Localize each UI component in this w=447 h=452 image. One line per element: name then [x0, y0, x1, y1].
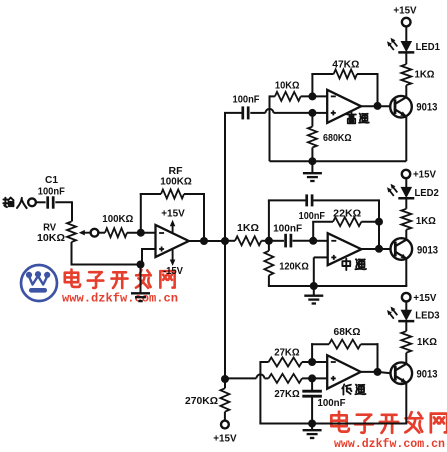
- svg-text:10KΩ: 10KΩ: [275, 81, 300, 92]
- transistor Q1 9013: [390, 96, 437, 118]
- label 高通: [347, 113, 369, 124]
- resistor 1K LED1 label: [415, 69, 435, 81]
- op-amp U1: [156, 225, 189, 257]
- wire collector Q2: [405, 230, 407, 240]
- svg-text:www.dzkfw.com.cn: www.dzkfw.com.cn: [62, 292, 178, 306]
- wire: [127, 232, 156, 234]
- wire LP ground branch: [260, 361, 268, 424]
- wire ground stem U1: [140, 265, 142, 293]
- LED1: [387, 38, 440, 53]
- resistor 120K label: [279, 262, 309, 273]
- wire: [55, 201, 72, 221]
- input terminal: [28, 198, 36, 206]
- svg-text:1KΩ: 1KΩ: [417, 336, 437, 348]
- svg-text:+15V: +15V: [161, 209, 185, 220]
- node 22K output junction: [375, 218, 383, 226]
- wire with hop: [250, 109, 327, 113]
- resistor 47K label: [332, 60, 359, 71]
- label 中通: [342, 259, 366, 270]
- svg-text:9013: 9013: [417, 369, 438, 381]
- node ground LP: [308, 420, 316, 428]
- node RV bottom junction: [137, 261, 145, 269]
- watermark text bottom: [331, 412, 447, 433]
- node A mid: [265, 237, 273, 245]
- wire: [313, 286, 315, 295]
- resistor 1K LED2 label: [416, 215, 436, 227]
- capacitor 100nF series label: [273, 224, 302, 235]
- resistor 100K input label: [102, 214, 133, 225]
- svg-text:C1: C1: [45, 175, 58, 186]
- wire HP 10K ground branch: [270, 95, 275, 161]
- svg-text:9013: 9013: [417, 244, 438, 256]
- resistor 120K: [264, 251, 273, 276]
- node inverting input U1: [137, 229, 145, 237]
- capacitor C1 label: [38, 175, 65, 197]
- wire: [224, 412, 226, 421]
- wire: [405, 301, 407, 310]
- wire: [269, 240, 328, 242]
- resistor 68K label: [334, 327, 361, 338]
- label 低通: [342, 384, 365, 394]
- wire: [311, 378, 313, 390]
- node noninverting U4: [308, 374, 316, 382]
- wiper arrow: [79, 230, 91, 236]
- svg-text:RV: RV: [43, 223, 56, 234]
- capacitor 100nF top: [307, 194, 312, 206]
- svg-text:100nF: 100nF: [273, 224, 302, 235]
- svg-text:1KΩ: 1KΩ: [237, 223, 259, 234]
- capacitor 100nF LP label: [318, 398, 346, 409]
- wire bus: [224, 113, 226, 379]
- wire output U2: [361, 105, 390, 107]
- resistor 47K: [334, 70, 357, 79]
- node bus bottom: [221, 375, 229, 383]
- svg-text:68KΩ: 68KΩ: [334, 327, 361, 338]
- svg-text:10KΩ: 10KΩ: [37, 233, 65, 244]
- wire: [311, 424, 313, 430]
- +15V terminal 270K: [213, 421, 236, 445]
- node noninverting U2: [308, 109, 316, 117]
- wire rail mid: [314, 259, 408, 286]
- +15V terminal LED1: [393, 4, 416, 26]
- svg-text:www.dzkfw.com.cn: www.dzkfw.com.cn: [334, 437, 445, 451]
- resistor 100K input: [105, 228, 127, 237]
- resistor 27K bottom label: [274, 389, 299, 400]
- wire: [405, 26, 407, 42]
- watermark url bottom: [334, 437, 445, 451]
- wire collector Q3: [405, 353, 407, 364]
- node output U2: [374, 102, 382, 110]
- LED3: [387, 307, 440, 322]
- wire: [302, 361, 327, 363]
- op-amp U2: [327, 90, 361, 123]
- ground: [303, 430, 322, 438]
- wire: [311, 113, 313, 127]
- svg-text:LED3: LED3: [415, 310, 439, 322]
- wire: [311, 161, 313, 173]
- wire: [311, 397, 313, 424]
- wire noninverting U3: [314, 257, 328, 286]
- wire: [302, 377, 327, 379]
- capacitor 100nF LP: [302, 391, 322, 396]
- svg-text:27KΩ: 27KΩ: [274, 389, 299, 400]
- resistor 680K: [308, 127, 317, 148]
- wire: [405, 178, 407, 187]
- watermark url left: [62, 292, 178, 306]
- svg-text:LED1: LED1: [416, 41, 440, 53]
- wire: [98, 232, 105, 234]
- resistor 1K mid: [235, 236, 261, 245]
- resistor 27K top label: [274, 347, 299, 358]
- watermark text left: [65, 270, 175, 288]
- potentiometer RV: [67, 222, 76, 243]
- svg-text:1KΩ: 1KΩ: [415, 69, 435, 81]
- svg-text:+15V: +15V: [413, 292, 436, 304]
- wire: [405, 52, 407, 64]
- wire output U4: [361, 372, 391, 373]
- node inverting U4: [308, 358, 316, 366]
- transistor Q3 9013: [391, 362, 438, 384]
- resistor 10K: [275, 92, 301, 101]
- resistor 27K top: [269, 358, 303, 367]
- wire: [405, 320, 407, 331]
- -15V arrow U1: [163, 248, 183, 277]
- resistor 270K label: [185, 396, 218, 407]
- wire output U1: [189, 240, 226, 242]
- wire 68K loop: [311, 343, 378, 372]
- input label 输入: [3, 198, 26, 209]
- wire: [405, 198, 407, 209]
- resistor RF: [161, 190, 184, 199]
- node RF output junction: [200, 237, 208, 245]
- capacitor 100nF series: [286, 234, 291, 248]
- resistor 22K label: [333, 208, 361, 219]
- svg-text:27KΩ: 27KΩ: [274, 347, 299, 358]
- wire: [301, 95, 328, 97]
- wire: [225, 240, 269, 242]
- wire emitter Q1: [405, 116, 407, 161]
- wire RF loop: [140, 193, 205, 241]
- svg-text:9013: 9013: [416, 102, 437, 114]
- wire: [36, 201, 46, 203]
- wire: [311, 148, 313, 162]
- wire: [224, 379, 226, 388]
- +15V arrow U1: [161, 209, 185, 234]
- ground: [303, 173, 322, 181]
- wire 22K: [312, 222, 379, 241]
- svg-text:120KΩ: 120KΩ: [279, 262, 309, 273]
- resistor 270K: [220, 388, 229, 411]
- wire rail LP: [259, 383, 407, 423]
- +15V terminal LED2: [402, 169, 436, 181]
- node bus junction: [221, 237, 229, 245]
- wire with hop LP: [225, 374, 269, 378]
- resistor 10K label: [275, 81, 300, 92]
- capacitor C1: [48, 196, 54, 208]
- wire top path mid: [268, 199, 379, 248]
- svg-text:100nF: 100nF: [318, 398, 346, 409]
- op-amp U4: [327, 355, 361, 389]
- node ground mid: [310, 282, 318, 290]
- wire: [268, 241, 270, 251]
- svg-text:22KΩ: 22KΩ: [333, 208, 361, 219]
- resistor 680K label: [323, 133, 352, 144]
- +15V terminal LED3: [402, 292, 436, 304]
- svg-text:47KΩ: 47KΩ: [332, 60, 359, 71]
- capacitor 100nF top label: [299, 211, 325, 222]
- node ground HP: [308, 157, 316, 165]
- svg-text:100KΩ: 100KΩ: [102, 214, 133, 225]
- op-amp U3: [328, 233, 362, 265]
- resistor 27K bottom: [269, 374, 303, 383]
- node output U4: [374, 368, 382, 376]
- wire: [268, 275, 314, 286]
- svg-text:LED2: LED2: [415, 187, 439, 199]
- resistor 1K mid label: [237, 223, 259, 234]
- watermark logo circle: [21, 265, 57, 301]
- svg-text:100nF: 100nF: [299, 211, 325, 222]
- wire noninverting input U1: [142, 248, 156, 265]
- svg-text:1KΩ: 1KΩ: [416, 215, 436, 227]
- svg-text:100KΩ: 100KΩ: [160, 177, 192, 188]
- svg-text:+15V: +15V: [393, 4, 416, 16]
- svg-text:+15V: +15V: [213, 433, 236, 445]
- wire rail HP: [270, 160, 407, 162]
- resistor 22K: [333, 217, 361, 226]
- node inverting U2: [308, 92, 316, 100]
- resistor 1K LED3: [401, 331, 411, 353]
- wire 47K loop: [311, 73, 378, 106]
- LED2: [387, 184, 439, 199]
- resistor 1K LED3 label: [417, 336, 437, 348]
- svg-text:-15V: -15V: [163, 266, 183, 277]
- resistor 1K LED1: [401, 64, 411, 85]
- potentiometer RV label: [37, 223, 65, 245]
- capacitor 100nF HP label: [233, 95, 260, 106]
- node inverting U3: [309, 237, 317, 245]
- wire bus top: [224, 112, 242, 114]
- wire output U3: [361, 248, 391, 250]
- capacitor 100nF HP: [243, 106, 248, 119]
- transistor Q2 9013: [391, 238, 439, 260]
- wire collector Q1: [405, 85, 407, 97]
- svg-text:680KΩ: 680KΩ: [323, 133, 352, 144]
- wire: [71, 242, 141, 265]
- wire emitter Q2: [0, 0, 1, 1]
- wiper terminal: [91, 229, 99, 237]
- ground: [304, 296, 323, 304]
- resistor 1K LED2: [401, 209, 411, 230]
- svg-text:+15V: +15V: [413, 169, 436, 181]
- svg-text:RF: RF: [169, 166, 183, 177]
- resistor RF label: [160, 166, 192, 188]
- svg-text:100nF: 100nF: [38, 186, 65, 197]
- svg-text:100nF: 100nF: [233, 95, 260, 106]
- resistor 68K: [329, 340, 361, 349]
- svg-text:270KΩ: 270KΩ: [185, 396, 218, 407]
- node output U3: [375, 245, 383, 253]
- ground: [131, 293, 150, 301]
